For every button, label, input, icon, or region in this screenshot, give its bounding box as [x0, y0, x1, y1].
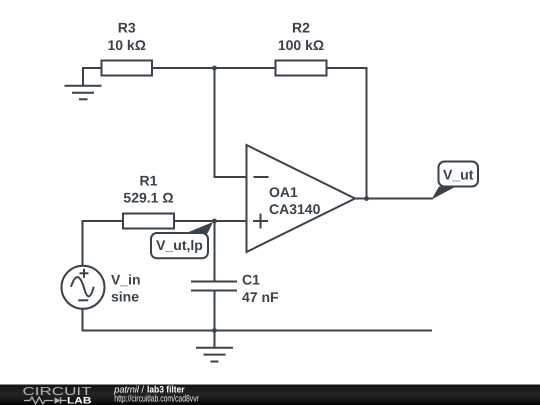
ground (left, under R3)	[65, 86, 102, 100]
svg-text:R1: R1	[140, 173, 158, 189]
wire: R3 left stub to ground	[83, 68, 101, 85]
op-amp OA1 CA3140	[247, 145, 356, 252]
wire: op-amp output to V_ut flag	[355, 198, 433, 200]
footer bar	[0, 385, 540, 405]
svg-text:http://circuitlab.com/cad8vvr: http://circuitlab.com/cad8vvr	[114, 394, 199, 405]
resistor R1	[123, 173, 174, 229]
node flag V_ut,lp	[151, 222, 213, 258]
wire: capacitor C1 bottom to bottom rail	[214, 291, 216, 331]
svg-text:C1: C1	[242, 271, 260, 287]
wire: R1 right to op-amp non-inverting input	[174, 220, 247, 222]
resistor R3	[102, 20, 153, 76]
svg-text:sine: sine	[111, 289, 139, 305]
wire: bottom rail to ground stem	[214, 331, 216, 348]
junction: node V_ut,lp	[212, 219, 217, 224]
wire: top node down to op-amp inverting input	[215, 68, 247, 177]
svg-text:V_ut,lp: V_ut,lp	[156, 237, 203, 253]
svg-text:V_ut: V_ut	[443, 167, 474, 183]
svg-text:V_in: V_in	[111, 272, 141, 288]
ground (bottom center)	[196, 348, 233, 362]
wire: source to R1 left	[83, 221, 124, 266]
svg-text:100 kΩ: 100 kΩ	[278, 37, 324, 53]
node flag V_ut	[432, 162, 479, 200]
CircuitLab logo	[23, 386, 92, 405]
svg-text:CA3140: CA3140	[269, 201, 321, 217]
svg-text:R2: R2	[292, 20, 310, 36]
voltage source V_in (sine)	[62, 266, 141, 309]
svg-text:47 nF: 47 nF	[242, 289, 279, 305]
junction: bottom rail at ground	[212, 328, 217, 333]
svg-text:OA1: OA1	[269, 184, 298, 200]
junction: output node	[364, 196, 369, 201]
footer credit text	[113, 384, 199, 404]
junction: top node	[212, 66, 217, 71]
capacitor C1	[191, 271, 279, 305]
svg-text:529.1 Ω: 529.1 Ω	[123, 189, 173, 205]
resistor R2	[276, 20, 327, 76]
wire: R2 right, down to output node	[327, 68, 367, 199]
wire: source bottom to bottom rail	[83, 309, 433, 331]
svg-text:10 kΩ: 10 kΩ	[107, 37, 145, 53]
svg-text:LAB: LAB	[67, 396, 92, 405]
svg-text:R3: R3	[118, 20, 136, 36]
wire: R3 right to R2 left (node A at top)	[152, 67, 276, 69]
wire: node down to capacitor C1	[214, 221, 216, 281]
